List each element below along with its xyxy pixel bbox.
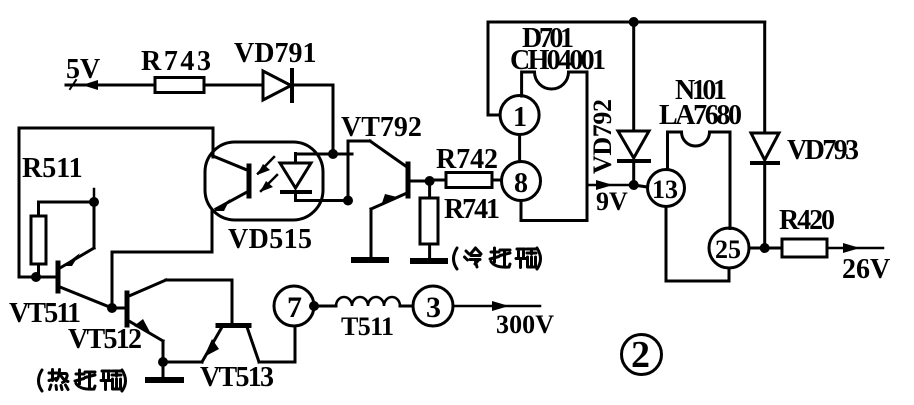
node N101 pin 13 [648, 170, 685, 207]
diode VD793 [751, 22, 859, 248]
transistor VT513 [200, 326, 274, 394]
node D701 pin 8 [502, 162, 541, 201]
wire VT792 emitter down [370, 209, 373, 257]
wire 9V injection [587, 184, 634, 187]
svg-text:R741: R741 [444, 194, 500, 225]
wire VT513 collector to T511 pin7 [259, 326, 295, 362]
svg-text:9V: 9V [596, 187, 628, 216]
wire to N101 pin13 [634, 185, 648, 187]
ground hot [148, 362, 181, 380]
svg-text:5V: 5V [66, 54, 100, 85]
resistor R741 [420, 181, 500, 258]
svg-text:VT792: VT792 [341, 112, 422, 143]
wire LED cathode to VT792 collector riser [296, 199, 349, 202]
wire light arrows [257, 157, 277, 192]
ground VT792 emitter [354, 257, 386, 263]
transistor VT511 [9, 202, 112, 329]
wire opto emitter to VT512 base [112, 210, 212, 308]
node VT792 base junction [425, 176, 435, 186]
node VT512 base junction [107, 303, 117, 313]
node R420 junction [760, 243, 770, 253]
resistor R420 [765, 205, 835, 257]
wire VT512 collector to VT513 base [166, 280, 232, 323]
svg-text:R742: R742 [436, 144, 498, 175]
wire coil to pin3 [400, 305, 413, 308]
svg-text:8: 8 [514, 168, 528, 199]
svg-text:13: 13 [652, 175, 678, 204]
transistor opto phototransistor [213, 156, 249, 211]
node pin7 right junction [309, 301, 319, 311]
wire 300V output [453, 305, 540, 308]
node LED cathode junction [343, 196, 353, 206]
wire left rail drop to opto collector [212, 128, 215, 157]
svg-text:VD793: VD793 [787, 135, 859, 166]
inductor T511 winding [336, 297, 400, 306]
node R511 bottom junction [31, 272, 41, 282]
node LED anode junction [328, 149, 338, 159]
transistor VT512 [68, 280, 166, 355]
svg-text:1: 1 [513, 102, 527, 133]
node figure number 2 [622, 334, 662, 376]
node VT511 emitter junction [89, 197, 99, 207]
wire VD791 to LED anode node [292, 85, 333, 154]
svg-text:VT513: VT513 [200, 362, 274, 393]
svg-text:R420: R420 [779, 205, 835, 236]
IC D701 outline [521, 72, 587, 221]
IC N101 outline [668, 132, 731, 229]
svg-text:VD791: VD791 [234, 38, 316, 69]
svg-text:R511: R511 [22, 153, 83, 184]
label hot ground [39, 370, 126, 392]
node hot ground junction [158, 357, 168, 367]
node D701 pin 1 [500, 96, 539, 135]
node N101 pin 25 [709, 228, 749, 268]
wire pin1 to top rail [488, 22, 765, 115]
svg-text:LA7680: LA7680 [659, 100, 742, 131]
node 9V junction [629, 180, 639, 190]
wire 5V feed [66, 84, 155, 87]
wire R743 to VD791 [204, 84, 263, 87]
diode VD792 [618, 22, 649, 185]
wire LED anode rail [296, 153, 353, 156]
svg-text:300V: 300V [496, 310, 554, 339]
svg-text:3: 3 [426, 291, 441, 324]
svg-text:2: 2 [631, 334, 650, 376]
label cold ground [454, 248, 541, 269]
wire pin13 to pin25 [666, 207, 729, 282]
wire pin8 bottom [520, 201, 523, 221]
wire pin1 to pin8 [518, 135, 521, 162]
svg-text:26V: 26V [842, 254, 890, 285]
wire R511 top to VT511 emitter node [39, 201, 95, 204]
svg-text:CH04001: CH04001 [510, 45, 606, 76]
svg-text:VD515: VD515 [228, 224, 312, 255]
resistor R742 [430, 144, 502, 188]
svg-text:7: 7 [287, 291, 302, 324]
node top rail junction [629, 17, 639, 27]
wire riser to VT792 collector [348, 141, 370, 201]
svg-text:25: 25 [715, 235, 741, 264]
svg-text:R743: R743 [141, 46, 211, 77]
optocoupler VD515 body [205, 142, 323, 220]
wire pin7 to coil [314, 305, 336, 308]
svg-text:T511: T511 [341, 312, 394, 341]
wire VT512 emitter down [162, 341, 165, 362]
node T511 pin 7 [274, 286, 314, 326]
wire ground node to VT513 emitter [163, 361, 202, 364]
svg-text:VD792: VD792 [588, 99, 617, 174]
ground R741 [413, 258, 445, 264]
diode VD791 [263, 71, 291, 100]
resistor R743 [155, 78, 204, 93]
resistor R511 [31, 216, 46, 264]
wire pin25 to R420 node [749, 247, 765, 250]
svg-text:VT512: VT512 [68, 324, 142, 355]
node T511 pin 3 [413, 286, 453, 326]
transistor VT792 [341, 112, 430, 209]
diode opto LED [280, 154, 311, 201]
wire left rail from top to VT511 base [19, 128, 213, 277]
wire 26V output [827, 247, 883, 250]
